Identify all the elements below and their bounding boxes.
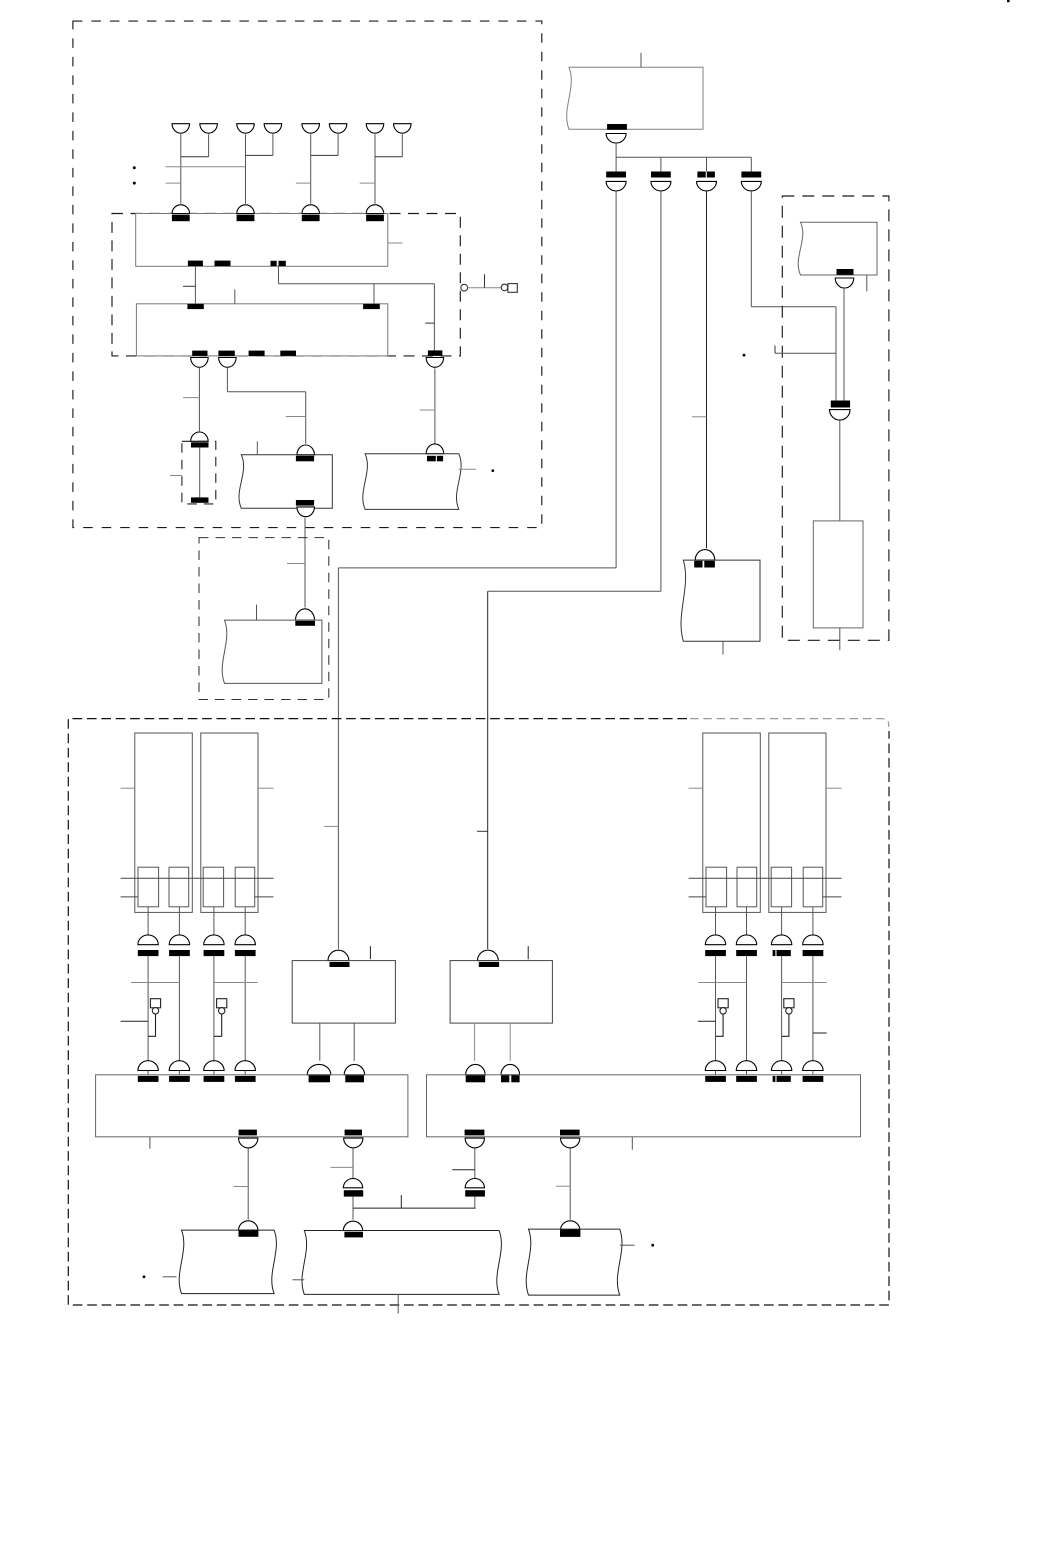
pin label blob G1 from A1 xyxy=(309,1075,330,1082)
wire down at x=781.6 xyxy=(781,956,783,1061)
stub down right of T6 xyxy=(866,275,868,291)
tick on connector wire xyxy=(484,274,486,288)
stub line right TL y=897 xyxy=(255,896,274,898)
wire SP8 stem xyxy=(401,134,403,157)
wire Bm out2 xyxy=(509,1023,511,1061)
pin blob G1 bottom 1 xyxy=(239,1130,257,1136)
tape block U2 xyxy=(302,1231,501,1295)
source port SP3 xyxy=(237,124,255,134)
port label blob at x=148.1 xyxy=(138,950,159,956)
pin label blob G2 from Bm2 xyxy=(501,1075,509,1082)
tick right of U3 xyxy=(620,1244,635,1246)
mid dome BW3 xyxy=(465,1179,484,1188)
input pin dome D2 on B1 xyxy=(237,205,255,214)
input dome on tape U3 xyxy=(561,1221,580,1230)
input dome at x=746.5 xyxy=(736,1061,756,1071)
stub line left TL y=897 xyxy=(121,896,138,898)
tick on BW3 xyxy=(452,1169,475,1171)
receive port RP2 label xyxy=(651,172,671,178)
tape block T1 xyxy=(239,455,332,509)
stub up from T2 xyxy=(256,605,258,621)
wire from sub-block at x=812.9 xyxy=(812,907,814,935)
pin label blob C bottom xyxy=(191,497,209,502)
receive port RP3 label xyxy=(697,172,705,178)
big block G2 xyxy=(427,1075,861,1137)
pin label blob G1 from A2 xyxy=(345,1075,364,1082)
output dome at x=245.2 xyxy=(235,935,255,945)
source port SP4 xyxy=(264,124,282,134)
pin blob on inner dashed bottom edge xyxy=(428,350,443,356)
port label blob at x=715.5 xyxy=(705,950,726,956)
output dome at x=715.5 xyxy=(705,935,725,945)
wire down at x=245.2 xyxy=(244,956,246,1061)
receive port RP4 bowl xyxy=(741,181,761,191)
wire from sub-block at x=715.5 xyxy=(715,907,717,935)
block B1 (upper register) xyxy=(136,214,388,267)
stub right of B1 xyxy=(388,242,403,244)
pin label blob at x=812.9 xyxy=(803,1076,824,1082)
stub below G1 xyxy=(149,1137,151,1149)
block R5 xyxy=(813,521,863,628)
receive port RP3 bowl xyxy=(697,181,717,191)
tick left of U1 xyxy=(163,1276,177,1278)
source port SP8 xyxy=(394,124,412,134)
pin label blob T5 top xyxy=(694,561,702,568)
wire down at x=746.5 xyxy=(746,956,748,1061)
long wire W1 to block A xyxy=(615,191,617,568)
output dome at x=213.9 xyxy=(204,935,224,945)
wire BW4 down xyxy=(569,1148,571,1220)
pin label blob B2 top 2 xyxy=(363,304,380,309)
tick on W3 xyxy=(692,416,707,418)
mid label blob BW2 xyxy=(344,1190,363,1196)
branch wire into E xyxy=(775,352,836,354)
pin label blob T4 bottom xyxy=(607,124,627,130)
pin label blob A top xyxy=(330,962,350,967)
stub down from R5 xyxy=(839,628,841,650)
pin label blob T3 top xyxy=(427,456,436,462)
block A xyxy=(292,961,395,1024)
pin label blob on B1 top at x=245.5 xyxy=(237,215,255,222)
pin label blob B2 bottom 2 xyxy=(218,351,234,356)
receive port RP1 bowl xyxy=(606,181,626,191)
port label blob at x=812.9 xyxy=(803,950,824,956)
tape block U1 xyxy=(179,1230,276,1294)
port label blob at x=213.9 xyxy=(204,950,225,956)
small dashed box D xyxy=(199,538,329,700)
wire to block R5 xyxy=(839,420,841,521)
tick left of U2 xyxy=(293,1279,305,1281)
tick into wire1 R xyxy=(698,1020,716,1022)
inner dashed box: register pair group xyxy=(112,214,460,356)
tick on BW2 xyxy=(330,1166,353,1168)
pin blob G2 bottom 1 xyxy=(465,1130,485,1136)
stub below G2 xyxy=(631,1137,633,1150)
output dome at x=812.9 xyxy=(803,935,823,945)
input dome at x=781.6 xyxy=(771,1061,791,1071)
cross line left pair R xyxy=(698,982,746,984)
wire SP2 stem xyxy=(208,134,210,157)
wire T6 out down xyxy=(843,288,845,401)
wire SP7 stem xyxy=(374,134,376,204)
tick on wire at y=398 xyxy=(183,397,199,399)
pin label blob C top xyxy=(191,442,209,447)
cross line right pair R xyxy=(781,982,826,984)
wire from sub-block at x=245.2 xyxy=(244,907,246,935)
pin label blob at x=781.6 xyxy=(773,1076,776,1082)
tall block TL1 xyxy=(135,733,193,912)
stem to edge at x=213.9 xyxy=(213,1071,215,1075)
sub-block TR1.3 xyxy=(771,867,791,907)
wire from sub-block at x=781.6 xyxy=(781,907,783,935)
wire W3 down to tape T5 xyxy=(706,191,708,548)
stem to edge at x=715.5 xyxy=(715,1071,717,1075)
stem to edge at x=812.9 xyxy=(812,1071,814,1075)
pin label blob at x=148.1 xyxy=(138,1076,159,1082)
input dome at x=148.1 xyxy=(138,1061,158,1071)
wire fanout bus xyxy=(616,156,751,158)
tick up from junction bus xyxy=(400,1195,402,1208)
pin label blob U3 top xyxy=(560,1230,580,1237)
cross line right pair L xyxy=(213,982,257,984)
dot right of T3 xyxy=(491,469,494,472)
wire net stub left of SP3 column xyxy=(166,166,246,168)
switch/key symbol K4 xyxy=(784,999,794,1008)
wire down at x=812.9 xyxy=(812,956,814,1061)
stem to edge at x=746.5 xyxy=(746,1071,748,1075)
input dome at x=715.5 xyxy=(705,1061,725,1071)
port label blob at x=179.4 xyxy=(169,950,190,956)
stem to edge at x=245.2 xyxy=(244,1071,246,1075)
pin label blob at x=179.4 xyxy=(169,1076,190,1082)
stub right of T3 xyxy=(459,468,476,470)
tick from wire4 R xyxy=(813,1032,827,1034)
tick above B2 xyxy=(234,289,236,304)
junction bus at y=1208 xyxy=(353,1207,476,1209)
pin label blob T1 bottom xyxy=(296,500,314,506)
pin label blob on B1 top at x=375.0 xyxy=(366,215,384,222)
wire stub left of SP7 column xyxy=(360,182,375,184)
input pin dome D3 on B1 xyxy=(302,205,320,214)
output bowl on inner dashed bottom edge xyxy=(426,358,444,368)
receive port RP2 bowl xyxy=(651,181,671,191)
wire down at x=213.9 xyxy=(213,956,215,1061)
switch/key symbol K2 xyxy=(217,999,227,1008)
switch/key symbol K1 xyxy=(150,999,160,1008)
output dome at x=148.1 xyxy=(138,935,158,945)
tick into wire1 L xyxy=(121,1020,149,1022)
pin label blob at x=213.9 xyxy=(204,1076,225,1082)
input pin dome D4 on B1 xyxy=(366,205,384,214)
block B2 (lower register) xyxy=(136,304,387,356)
pin label blob B2 bottom 4 xyxy=(280,351,296,356)
tick above A right xyxy=(369,946,371,959)
tape block T4 (top source) xyxy=(567,67,703,129)
wire from sub-block at x=179.4 xyxy=(178,907,180,935)
wire T4 out stem xyxy=(615,143,617,157)
wire B1 pin1 to B2 xyxy=(194,266,196,304)
pin label blob B2 bottom 1 xyxy=(192,351,207,356)
pin label blob on B1 top at x=310.7 xyxy=(302,215,320,222)
output dome at x=179.4 xyxy=(169,935,189,945)
input dome G1 from A2 xyxy=(344,1064,364,1074)
tick left of C xyxy=(170,475,182,477)
output dome at x=781.6 xyxy=(771,935,791,945)
tick above Bm right xyxy=(527,946,529,959)
mid dome BW2 xyxy=(343,1179,362,1188)
wire W4 jog right xyxy=(750,191,752,307)
pin blob G2 bottom 2 xyxy=(560,1130,580,1136)
stub down from T5 xyxy=(722,641,724,654)
pin label blob at x=715.5 xyxy=(705,1076,726,1082)
connector circle xyxy=(461,284,468,291)
wire from sub-block at x=746.5 xyxy=(746,907,748,935)
output bowl G2.1 xyxy=(465,1138,484,1148)
input dome at x=245.2 xyxy=(235,1061,255,1071)
pin label blob T1 top xyxy=(296,456,314,462)
pin label blob Bm top xyxy=(479,962,499,967)
wire BW2 lower xyxy=(352,1197,354,1220)
output bowl G1.1 xyxy=(239,1138,258,1148)
input dome on tape U1 xyxy=(239,1221,258,1230)
tick on BW4 xyxy=(556,1185,570,1187)
stem to edge at x=781.6 xyxy=(781,1071,783,1075)
tick at branch end xyxy=(774,346,776,354)
sub-block TR1.1 xyxy=(706,867,727,907)
wire B2 out2 jog xyxy=(226,367,228,391)
tick left of TL1 xyxy=(121,787,135,789)
pin label blob B1 bottom 1 xyxy=(188,261,203,267)
sub-block TL1.1 xyxy=(138,867,159,907)
stub line left TR y=897 xyxy=(689,896,706,898)
output bowl under B2 pin2 xyxy=(219,358,237,368)
tape block T6 xyxy=(798,222,877,275)
output dome at x=746.5 xyxy=(736,935,756,945)
output bowl G2.2 xyxy=(561,1138,580,1148)
bus line across TR group xyxy=(689,877,842,879)
wire BW1 down xyxy=(247,1148,249,1220)
pin label blob B2 top 1 xyxy=(187,304,203,309)
wire SP4 stem xyxy=(272,134,274,155)
tick on W2 xyxy=(477,830,488,832)
wire A out1 xyxy=(319,1023,321,1061)
wire BW3 upper xyxy=(474,1148,476,1179)
output bowl under T6 xyxy=(835,278,854,288)
wire B1 pin3 jog xyxy=(278,266,280,284)
input dome on tape U2 xyxy=(343,1221,362,1230)
big block G1 xyxy=(96,1075,408,1137)
input dome G2 from Bm1 xyxy=(466,1064,486,1074)
pin label blob at x=245.2 xyxy=(235,1076,256,1082)
tape block T2 xyxy=(222,620,322,683)
pin label blob T2 top xyxy=(295,621,315,626)
wire SP3 stem xyxy=(245,134,247,204)
wire drop to RP2 xyxy=(660,157,662,171)
tall block TR1 xyxy=(703,733,761,912)
pin label blob B1 bottom 2 xyxy=(215,261,231,267)
small dashed box C xyxy=(182,441,216,504)
input dome on block C xyxy=(191,432,209,441)
cross line left pair L xyxy=(131,982,179,984)
tick left of TR1 xyxy=(689,787,703,789)
tall block TL2 xyxy=(201,733,258,912)
wire branch down to B2 pin xyxy=(373,284,375,304)
wire down at x=148.1 xyxy=(147,956,149,1061)
pin label blob U2 top xyxy=(344,1232,363,1238)
dot left of E xyxy=(743,354,746,357)
input dome G2 from Bm2 xyxy=(501,1064,520,1074)
input dome on tape T2 xyxy=(296,609,315,620)
source port SP5 xyxy=(302,124,320,134)
wire from sub-block at x=148.1 xyxy=(147,907,149,935)
stem to edge at x=148.1 xyxy=(147,1071,149,1075)
tick on wire at y=410 xyxy=(420,409,435,411)
wire SP6 stem xyxy=(337,134,339,155)
tick right of TL2 xyxy=(258,787,274,789)
sub-block TL1.4 xyxy=(235,867,255,907)
input dome on tape T3 xyxy=(426,444,444,454)
wire drop to RP3 xyxy=(706,157,708,171)
tick on wire at y=286 xyxy=(183,285,195,287)
receive bowl in E xyxy=(830,410,851,421)
tape block T5 xyxy=(681,560,760,641)
input pin dome D1 on B1 xyxy=(172,205,190,214)
big dashed box F (black part) xyxy=(68,719,889,1305)
internal wire of C xyxy=(199,448,201,498)
input dome at x=179.4 xyxy=(169,1061,189,1071)
tick on wire at y=416 xyxy=(286,416,306,418)
port label blob at x=781.6 xyxy=(773,950,776,956)
wire down at x=715.5 xyxy=(715,956,717,1061)
receive blob in E xyxy=(831,401,850,408)
receive port RP1 label xyxy=(606,172,626,178)
wire T1 out down xyxy=(304,518,306,608)
source port SP6 xyxy=(329,124,347,134)
pin label blob G2 from Bm1 xyxy=(466,1075,486,1082)
input dome on block A xyxy=(328,950,349,960)
wire drop to RP1 xyxy=(615,157,617,171)
output bowl under T1 xyxy=(297,507,315,517)
port label blob at x=746.5 xyxy=(736,950,757,956)
wire from sub-block at x=213.9 xyxy=(213,907,215,935)
sub-block TL1.3 xyxy=(203,867,223,907)
stub up from T1 xyxy=(256,441,258,455)
tape block U3 xyxy=(526,1229,622,1295)
pin blob G1 bottom 2 xyxy=(345,1130,362,1136)
stub up from T4 xyxy=(640,53,642,68)
pin label blob T6 bottom xyxy=(837,269,854,275)
bus line across TL group xyxy=(121,877,274,879)
port label blob at x=245.2 xyxy=(235,950,256,956)
output bowl under T4 xyxy=(606,134,626,144)
wire stub left of SP5 column xyxy=(296,182,311,184)
big dashed box F (gray part) xyxy=(690,719,889,727)
input dome at x=812.9 xyxy=(803,1061,823,1071)
wire SP1 stem xyxy=(180,134,182,204)
source port SP7 xyxy=(366,124,384,134)
pin label blob U1 top xyxy=(239,1230,259,1236)
block Bm xyxy=(450,961,552,1024)
sub-block TR1.4 xyxy=(803,867,823,907)
wire A out2 xyxy=(353,1023,355,1061)
mid label blob BW3 xyxy=(465,1190,485,1196)
connector wire xyxy=(468,287,502,289)
receive port RP4 label xyxy=(741,172,761,178)
right dashed box E xyxy=(782,196,889,640)
input dome on tape T1 xyxy=(297,445,315,455)
input dome on tape T5 xyxy=(695,550,715,561)
sub-block TL1.2 xyxy=(169,867,189,907)
pin label blob B2 bottom 3 xyxy=(249,351,265,356)
output bowl G1.2 xyxy=(344,1138,363,1148)
dot right of U3 xyxy=(651,1244,654,1247)
pin label blob B1 bottom 3 xyxy=(271,261,277,266)
stub line right TR y=897 xyxy=(823,896,842,898)
wire Bm out1 xyxy=(474,1023,476,1061)
tape block T3 xyxy=(363,454,461,510)
wire down at x=179.4 xyxy=(178,956,180,1061)
input dome G1 from A1 xyxy=(307,1064,331,1074)
connector square xyxy=(508,284,517,293)
wire BW2 upper xyxy=(352,1148,354,1179)
sub-block TR1.2 xyxy=(737,867,757,907)
tall block TR2 xyxy=(769,733,826,912)
wire dashed-edge out down xyxy=(434,368,436,444)
tick on wire at y=323 xyxy=(425,322,434,324)
wire SP5 stem xyxy=(310,134,312,204)
tick on BW1 xyxy=(233,1186,248,1188)
input dome at x=213.9 xyxy=(204,1061,224,1071)
connector circle 2 xyxy=(501,284,508,291)
long wire W2 to block Bm xyxy=(660,191,662,591)
tick right of TR2 xyxy=(826,787,842,789)
tick on W1 xyxy=(324,825,338,827)
wire drop to RP4 xyxy=(750,157,752,171)
switch/key symbol K3 xyxy=(718,999,728,1008)
speck at top edge xyxy=(1007,0,1010,2)
wire BW3 to junction xyxy=(474,1197,476,1209)
pin label blob on B1 top at x=180.8 xyxy=(172,215,190,222)
stub below U2 xyxy=(397,1294,399,1313)
wire stub left of SP1 column xyxy=(166,182,181,184)
stem to edge at x=179.4 xyxy=(178,1071,180,1075)
wire B2 out1 down xyxy=(198,367,200,431)
source port SP2 xyxy=(200,124,218,134)
ellipsis dots xyxy=(133,166,136,169)
source port SP1 xyxy=(172,124,190,134)
input dome on block Bm xyxy=(478,950,499,960)
outer dashed box: top-left subsystem xyxy=(73,21,542,527)
output bowl under B2 pin1 xyxy=(191,358,209,368)
tick on wire at y=563 xyxy=(287,563,305,565)
pin label blob at x=746.5 xyxy=(736,1076,757,1082)
dot left of U1 xyxy=(143,1275,146,1278)
